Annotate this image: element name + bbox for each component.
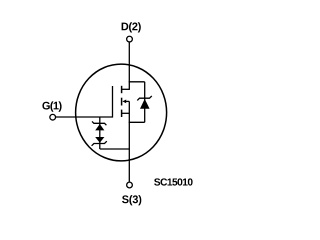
label D(2) xyxy=(122,22,141,32)
body diode D1 anode triangle xyxy=(140,99,150,109)
label G(1) xyxy=(42,101,61,111)
wire gate zener branch vertical xyxy=(99,117,101,149)
gate zener Z1 triangle xyxy=(95,124,104,130)
wire gate horizontal and gate electrode vertical xyxy=(56,86,113,117)
label S(3) xyxy=(122,195,141,205)
body arrow n-channel xyxy=(122,100,126,104)
wire drain vertical xyxy=(128,42,130,90)
mosfet channel bar drain contact xyxy=(121,86,123,93)
wire source lead xyxy=(122,112,130,114)
body diode D1 cathode bar zener style xyxy=(137,96,152,101)
wire zener branch to source xyxy=(100,148,130,150)
wire drain lead xyxy=(122,88,130,90)
gate zener Z1 cathode bar xyxy=(92,121,106,125)
wire source vertical xyxy=(128,101,130,181)
wire body-diode branch vertical xyxy=(144,82,146,123)
wire body-diode branch top xyxy=(129,81,145,83)
gate zener Z2 triangle xyxy=(95,137,104,143)
wire body lead xyxy=(126,100,130,102)
source terminal pin 3 xyxy=(127,182,133,188)
label SC15010 xyxy=(154,178,193,185)
drain terminal pin 2 xyxy=(127,36,133,42)
gate terminal pin 1 xyxy=(50,114,56,120)
wire body-diode branch bottom xyxy=(129,121,145,123)
mosfet channel bar body contact xyxy=(121,98,123,106)
gate zener Z2 cathode bar xyxy=(92,141,107,146)
transistor envelope circle Q1 xyxy=(76,64,167,161)
mosfet channel bar source contact xyxy=(121,110,123,117)
